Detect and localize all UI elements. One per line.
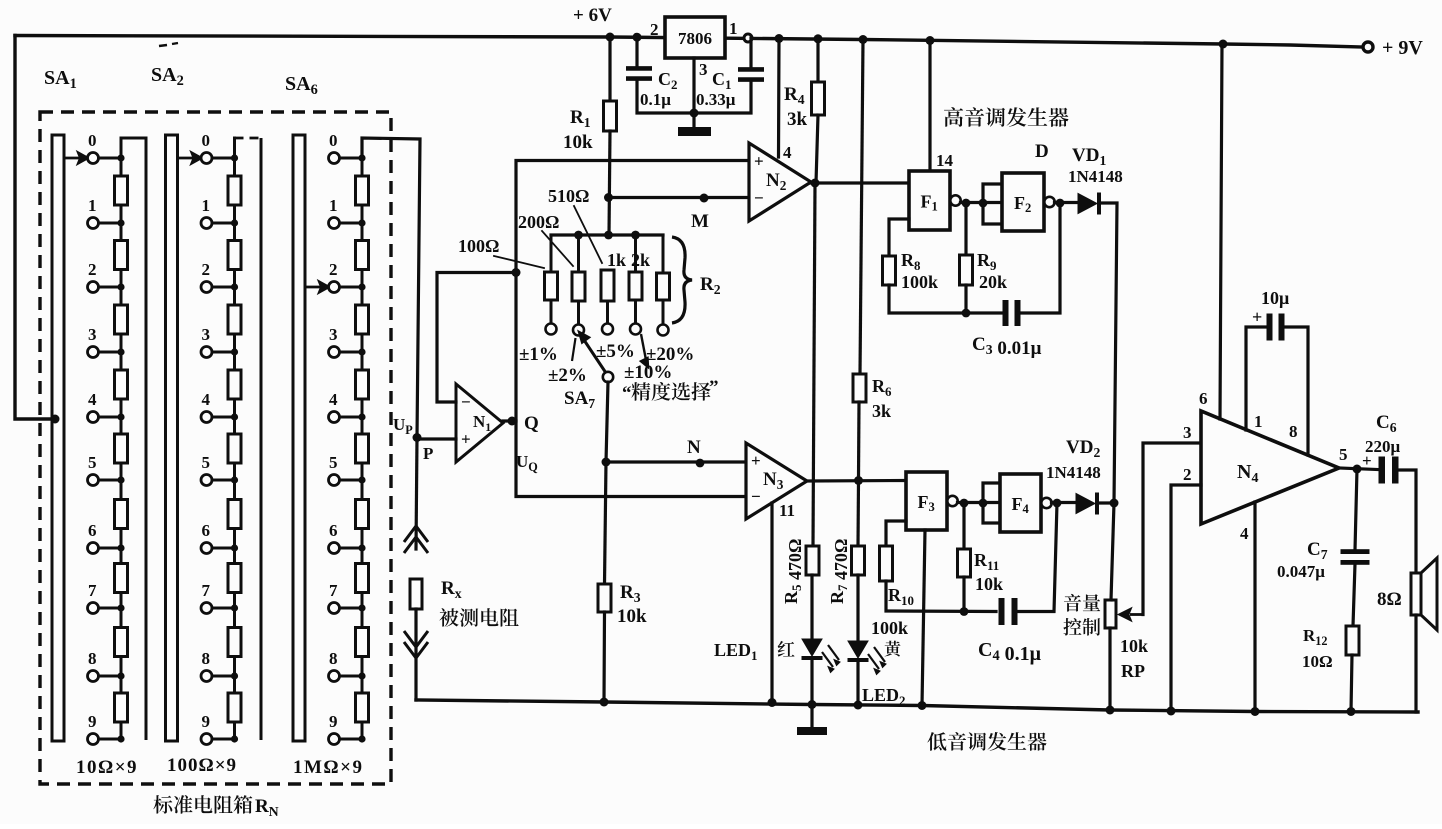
svg-text:−: − [461, 393, 471, 412]
resistor R2 element 3 [601, 270, 614, 301]
svg-text:+: + [751, 451, 761, 470]
wire Q down to N3 minus [516, 421, 746, 497]
junction SA2 tap 7 [231, 604, 238, 611]
svg-text:2k: 2k [631, 250, 650, 270]
label volume control line2 [1063, 618, 1100, 636]
contact SA2 position 7 [201, 603, 212, 614]
junction N2 output [811, 179, 820, 188]
svg-text:8: 8 [88, 649, 97, 668]
diode VD2 1N4148 [1076, 493, 1099, 515]
resistor R6 [853, 374, 866, 402]
wire F4 tied input [983, 483, 1000, 523]
svg-text:7: 7 [329, 581, 338, 600]
resistor SA2 element 9 [228, 693, 241, 722]
junction F4 out [1053, 499, 1062, 508]
junction SA1 tap 5 [117, 476, 124, 483]
junction SA1 tap 0 [117, 154, 124, 161]
svg-text:7806: 7806 [678, 29, 712, 48]
contact SA7 wiper [603, 372, 613, 382]
wire SA6 tap 9 stub [340, 738, 363, 741]
wire SA6 tap 8 stub [340, 675, 363, 678]
resistor R2 element 2 [572, 272, 585, 301]
standard resistor box RN dashed border [40, 112, 391, 784]
wire bottom ground rail [416, 700, 1418, 712]
wire SA1 right rail down [145, 138, 148, 740]
contact SA6 position 9 [329, 734, 340, 745]
svg-text:5: 5 [202, 453, 211, 472]
resistor SA1 element 5 [115, 434, 128, 463]
wire mix node to RP [1111, 503, 1114, 600]
wire F3 input to R10 [886, 521, 906, 546]
capacitor C4 0.1u [999, 598, 1018, 625]
label resistance under test [439, 608, 518, 627]
svg-text:“: “ [622, 383, 632, 404]
junction SA1 tap 2 [117, 283, 124, 290]
junction bus feed [51, 415, 60, 424]
svg-text:±2%: ±2% [548, 365, 587, 386]
wire C5 to pin8 [1284, 327, 1308, 455]
switch SA6 wiper arrow [305, 282, 329, 292]
wire R2 bus [551, 233, 663, 236]
resistor R1 [604, 101, 617, 131]
diode VD1 1N4148 [1078, 193, 1101, 215]
wire left frame down [15, 36, 56, 420]
svg-text:3: 3 [1183, 423, 1192, 442]
contact SA2 position 6 [201, 543, 212, 554]
wire R2 element 4 bottom lead [634, 300, 637, 324]
wire LED2 to ground rail [856, 662, 859, 705]
svg-text:10Ω×9: 10Ω×9 [76, 757, 138, 778]
wire N3 output [807, 479, 906, 483]
brace R2 group [672, 237, 692, 323]
contact SA2 position 8 [201, 671, 212, 682]
svg-text:8: 8 [202, 649, 211, 668]
svg-text:−: − [754, 189, 764, 208]
svg-text:3: 3 [202, 325, 211, 344]
resistor SA6 element 5 [356, 434, 369, 463]
contact SA2 position 9 [201, 734, 212, 745]
contact SA2 position 3 [201, 347, 212, 358]
svg-text:0.33μ: 0.33μ [696, 90, 736, 109]
wire SA1 tap 6 stub [99, 547, 122, 550]
wire Q up to N2 plus [503, 161, 749, 422]
junction RP ground [1106, 706, 1115, 715]
junction SA2 tap 9 [231, 735, 238, 742]
svg-text:M: M [691, 211, 709, 232]
svg-text:10k: 10k [975, 574, 1003, 594]
junction SA2 tap 6 [231, 544, 238, 551]
wire P to N1 plus [417, 437, 456, 440]
terminal +9V [1363, 42, 1373, 52]
wire R7 to LED2 [856, 575, 859, 641]
wire C2 bottom lead [637, 81, 694, 113]
wire C3 to F2 output [1019, 203, 1060, 313]
wire R4 top [816, 39, 819, 82]
wire N2 output down R5 branch [813, 183, 815, 546]
svg-text:3: 3 [88, 325, 97, 344]
wire SA1 tap 8 stub [99, 675, 122, 678]
resistor SA1 element 3 [115, 305, 128, 334]
svg-text:3: 3 [699, 60, 708, 79]
junction SA6 tap 5 [358, 476, 365, 483]
wire ground stem [692, 113, 695, 127]
resistor R10 [880, 546, 893, 581]
svg-text:6: 6 [202, 521, 211, 540]
LED LED2 yellow [848, 641, 887, 675]
node M junction [604, 193, 613, 202]
svg-text:2: 2 [88, 260, 97, 279]
wire pin5 to C6 [1339, 468, 1377, 470]
junction SA6 tap 6 [358, 544, 365, 551]
svg-text:8Ω: 8Ω [1377, 589, 1402, 610]
wire R1 bottom to bus [609, 131, 610, 235]
resistor R11 [958, 549, 971, 577]
op-amp N4 power amplifier [1201, 411, 1339, 524]
wire SA6 tap 7 stub [340, 607, 363, 610]
contact SA2 position 1 [201, 218, 212, 229]
junction SA6 tap 1 [358, 219, 365, 226]
pointer 200ohm [542, 231, 573, 266]
svg-text:1: 1 [88, 196, 97, 215]
svg-text:9: 9 [88, 712, 97, 731]
junction SA6 tap 7 [358, 604, 365, 611]
wire R6 to node [857, 402, 861, 479]
junction SA1 tap 7 [117, 604, 124, 611]
svg-text:+: + [754, 152, 764, 171]
resistor SA1 element 6 [115, 500, 128, 529]
wire R11 bottom [962, 577, 965, 612]
contact tolerance 4 [630, 324, 641, 335]
resistor R2 element 5 [657, 273, 670, 300]
wire R3 top [605, 462, 607, 584]
wire F3 out to F4 in [958, 501, 1001, 504]
potentiometer RP wiper arrow [1120, 610, 1143, 620]
svg-text:5: 5 [329, 453, 338, 472]
switch SA2 wiper bus bar [166, 135, 178, 741]
svg-text:100Ω×9: 100Ω×9 [167, 755, 237, 776]
junction N4 output pin5 [1353, 465, 1362, 474]
pointer 2pct tick [572, 338, 576, 361]
junction SA6 tap 2 [358, 283, 365, 290]
svg-text:+ 6V: + 6V [573, 5, 612, 26]
pointer 100ohm [494, 256, 544, 268]
wire N4 pin6 supply [1220, 44, 1222, 419]
svg-text:6: 6 [1199, 389, 1208, 408]
wire VD2 to mix node [1099, 501, 1114, 504]
wire SA6 tap 0 stub [340, 157, 363, 160]
junction SA1 tap 8 [117, 672, 124, 679]
ground bottom [797, 727, 827, 735]
svg-text:3k: 3k [787, 109, 808, 130]
resistor SA2 element 6 [228, 500, 241, 529]
contact SA1 position 7 [88, 603, 99, 614]
svg-text:1N4148: 1N4148 [1046, 463, 1101, 482]
resistor SA2 element 5 [228, 434, 241, 463]
wire C1 bottom lead [694, 82, 751, 113]
svg-text:220μ: 220μ [1365, 437, 1401, 456]
wire N to N3 plus [606, 460, 746, 463]
junction SA1 tap 9 [117, 735, 124, 742]
resistor SA1 element 9 [115, 693, 128, 722]
wire SA1 tap 3 stub [99, 351, 122, 354]
resistor chain SA2 wire [233, 158, 236, 739]
svg-text:4: 4 [202, 390, 211, 409]
svg-text:2: 2 [1183, 465, 1192, 484]
wire RP wiper to N4 pin3 [1143, 443, 1201, 615]
switch SA6 wiper bus bar [293, 135, 305, 741]
wire R12 to rail [1351, 655, 1352, 712]
svg-text:N: N [687, 437, 701, 458]
wire R10 bottom to C4 [886, 581, 996, 612]
junction SA2 tap 5 [231, 476, 238, 483]
svg-text:100k: 100k [901, 272, 938, 292]
svg-text:2: 2 [650, 20, 659, 39]
LED LED1 red [802, 639, 841, 673]
junction F1 out a [962, 199, 971, 208]
junction F1 vcc [926, 36, 935, 45]
pointer 1k tolerance [641, 334, 648, 367]
svg-text:”: ” [709, 377, 719, 398]
wire SA2 tap 4 stub [212, 416, 235, 419]
wire F4 out to VD2 [1052, 501, 1077, 504]
contact SA1 position 2 [88, 282, 99, 293]
wire SA2 tap 9 stub [212, 738, 235, 741]
junction bus a [574, 231, 583, 240]
svg-text:2: 2 [202, 260, 211, 279]
svg-text:8: 8 [1289, 422, 1298, 441]
wire node to R7 [856, 481, 860, 547]
resistor SA6 element 9 [356, 693, 369, 722]
wire SA6 tap 3 stub [340, 351, 363, 354]
junction bus b [604, 231, 613, 240]
wire +9V top rail [15, 36, 1362, 48]
wire SA6 tap 5 stub [340, 479, 363, 482]
wire M to N2 minus [609, 196, 750, 199]
contact SA6 position 6 [329, 543, 340, 554]
resistor SA2 element 3 [228, 305, 241, 334]
op-amp N3 [746, 443, 807, 519]
wire SA7 wiper down to N [606, 382, 608, 462]
wire speaker to rail [1414, 615, 1417, 712]
svg-text:+: + [461, 430, 471, 449]
wire LED1 to ground rail [810, 660, 813, 705]
svg-text:4: 4 [783, 143, 792, 162]
svg-text:200Ω: 200Ω [518, 212, 559, 232]
wire N4 pin1 to C5 [1246, 327, 1267, 430]
wire R2 element 3 bottom lead [606, 301, 609, 324]
contact SA2 position 5 [201, 475, 212, 486]
wire SA6 tap 2 stub [340, 286, 363, 289]
contact SA1 position 4 [88, 412, 99, 423]
junction R6 top [859, 35, 868, 44]
junction SA2 tap 0 [231, 154, 238, 161]
contact SA2 position 2 [201, 282, 212, 293]
contact SA6 position 8 [329, 671, 340, 682]
svg-text:1N4148: 1N4148 [1068, 167, 1123, 186]
svg-text:±5%: ±5% [596, 341, 635, 362]
junction bus c [631, 231, 640, 240]
junction C2 top [633, 33, 642, 42]
resistor SA2 element 7 [228, 564, 241, 593]
resistor R8 [883, 256, 896, 285]
svg-text:3k: 3k [872, 401, 891, 421]
gate F4 [1000, 474, 1052, 532]
node N junction [602, 458, 611, 467]
junction feedback on Q line [512, 268, 521, 277]
resistor SA6 element 6 [356, 500, 369, 529]
svg-text:1: 1 [202, 196, 211, 215]
capacitor C2 [626, 66, 652, 81]
svg-text:4: 4 [88, 390, 97, 409]
svg-text:±1%: ±1% [519, 344, 558, 365]
wire R2 element 1 top stub [550, 235, 553, 272]
wire SA2 tap 1 stub [212, 222, 235, 225]
resistor R5 [806, 546, 819, 575]
wire N1 minus feedback loop [437, 273, 516, 403]
resistor SA2 element 8 [228, 628, 241, 657]
junction F3 out a [960, 499, 969, 508]
junction R11 bottom [960, 607, 969, 616]
junction F3 out b [979, 499, 988, 508]
svg-text:LED2: LED2 [862, 685, 906, 708]
wire Rx to lower clip [414, 609, 417, 700]
resistor Rx [410, 579, 422, 609]
resistor SA6 element 3 [356, 305, 369, 334]
wire R2 element 5 top stub [662, 235, 665, 272]
svg-text:1: 1 [1254, 412, 1263, 431]
svg-text:9: 9 [329, 712, 338, 731]
svg-text:10k: 10k [617, 606, 647, 627]
test clip upper chevrons [404, 526, 428, 553]
ground symbol top [678, 127, 711, 136]
wire R8 bottom to C3 [889, 285, 1001, 313]
svg-text:10k: 10k [563, 132, 593, 153]
resistor R7 [852, 546, 865, 575]
wire F3 gnd pin [922, 530, 925, 706]
resistor SA6 element 1 [356, 176, 369, 205]
junction SA2 tap 8 [231, 672, 238, 679]
junction F1 out b [979, 199, 988, 208]
label yellow [885, 641, 901, 657]
resistor SA1 element 7 [115, 564, 128, 593]
junction F3 ground [918, 701, 927, 710]
svg-text:P: P [423, 444, 433, 463]
wire SA2 tap 7 stub [212, 607, 235, 610]
label red [778, 641, 795, 657]
junction SA6 tap 9 [358, 735, 365, 742]
junction LED1 ground [808, 700, 817, 709]
resistor R12 [1346, 626, 1359, 655]
resistor SA2 element 1 [228, 176, 241, 205]
junction SA6 tap 4 [358, 413, 365, 420]
resistor R2 element 1 [545, 272, 558, 300]
contact SA2 position 4 [201, 412, 212, 423]
resistor SA1 element 4 [115, 370, 128, 399]
wire SA2 tap 8 stub [212, 675, 235, 678]
junction SA2 tap 2 [231, 283, 238, 290]
svg-text:6: 6 [329, 521, 338, 540]
gate F2 [1002, 173, 1055, 231]
wire R2 element 1 bottom lead [550, 300, 553, 324]
svg-text:100k: 100k [871, 618, 908, 638]
junction pin6 rail [1219, 40, 1228, 49]
svg-text:0: 0 [329, 131, 338, 150]
wire R9 bottom [964, 285, 967, 313]
wire SA2 tap 3 stub [212, 351, 235, 354]
wire SA1 chain top to right rail [121, 138, 146, 158]
wire R1 top [608, 37, 611, 101]
wire C7 to R12 [1353, 564, 1355, 626]
svg-text:5: 5 [1339, 445, 1348, 464]
resistor SA2 element 4 [228, 370, 241, 399]
wire SA1 tap 2 stub [99, 286, 122, 289]
junction SA6 tap 0 [358, 154, 365, 161]
capacitor C1 [738, 67, 764, 82]
wire R11 top [962, 503, 965, 549]
switch SA1 wiper bus bar [52, 135, 64, 741]
junction pin4 ground [1251, 707, 1260, 716]
contact tolerance 2 [573, 325, 584, 336]
junction N2 pin4 rail [775, 34, 784, 43]
junction SA6 tap 8 [358, 672, 365, 679]
junction R9 bottom [962, 309, 971, 318]
switch SA1 wiper arrow [64, 153, 88, 163]
potentiometer RP body [1105, 600, 1116, 628]
svg-text:±20%: ±20% [646, 344, 694, 365]
regulator 7806 [665, 17, 725, 58]
wire SA1 tap 9 stub [99, 738, 122, 741]
wire R9 top [964, 203, 967, 255]
junction pin11 ground [768, 698, 777, 707]
svg-text:D: D [1035, 141, 1049, 162]
test clip lower chevrons [404, 631, 428, 658]
svg-text:0.047μ: 0.047μ [1277, 562, 1325, 581]
wire SA1 tap 4 stub [99, 416, 122, 419]
svg-text:510Ω: 510Ω [548, 186, 589, 206]
node Q junction [508, 417, 517, 426]
junction SA2 tap 3 [231, 348, 238, 355]
capacitor C5 [1267, 314, 1285, 341]
switch SA2 wiper arrow [178, 153, 202, 163]
wire N3 pin11 ground [770, 503, 773, 703]
contact SA6 position 2 [329, 282, 340, 293]
junction R1 top [606, 33, 615, 42]
junction on N wire [696, 459, 705, 468]
svg-text:1: 1 [329, 196, 338, 215]
wire N4 pin2 [1171, 485, 1201, 711]
svg-text:Q: Q [524, 413, 539, 434]
wire SA2 dashed continuation [235, 137, 262, 140]
wire SA1 tap 7 stub [99, 607, 122, 610]
capacitor C3 0.01u [1003, 300, 1021, 326]
wire R3 bottom [602, 612, 606, 702]
switch SA7 wiper arm [580, 333, 607, 374]
svg-text:9: 9 [202, 712, 211, 731]
wire N2 output to F1 [811, 181, 909, 184]
svg-text:14: 14 [936, 151, 954, 170]
wire SA2 tap 5 stub [212, 479, 235, 482]
junction SA1 tap 1 [117, 219, 124, 226]
wire N4 pin4 ground [1253, 502, 1256, 712]
svg-text:5: 5 [88, 453, 97, 472]
wire R6 line down [860, 40, 863, 374]
contact SA6 position 7 [329, 603, 340, 614]
wire pin5 down to C7 [1355, 469, 1357, 550]
svg-text:0.1μ: 0.1μ [640, 90, 671, 109]
resistor R3 [598, 584, 611, 612]
wire VD1 to mix node [1101, 203, 1117, 503]
wire R5 to LED1 [810, 575, 813, 639]
